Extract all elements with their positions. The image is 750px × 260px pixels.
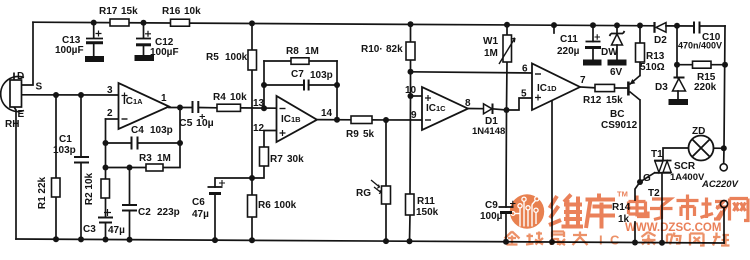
- wire IC1D output to R12: [580, 86, 595, 89]
- svg-text:R6: R6: [258, 200, 271, 211]
- wire feedback box right vertical to output: [336, 61, 338, 120]
- node top rail / IC V+ pin: [551, 22, 557, 28]
- wire sensor S lead to top rail: [22, 22, 34, 85]
- svg-text:C7: C7: [291, 69, 304, 80]
- svg-text:6V: 6V: [610, 67, 623, 78]
- svg-text:BC: BC: [610, 109, 624, 120]
- capacitor C5: [193, 101, 206, 119]
- svg-text:W1: W1: [483, 36, 498, 47]
- svg-text:C5: C5: [179, 117, 193, 129]
- 场: [701, 198, 727, 220]
- watermark text 维库 TM 电子市场网 www.dzsc.com 全球最大IC采购网站: [505, 190, 749, 248]
- svg-text:103p: 103p: [310, 70, 333, 81]
- svg-text:R4: R4: [213, 92, 226, 103]
- svg-text:1A400V: 1A400V: [670, 172, 705, 183]
- wire IC1C pin10 stub: [411, 95, 423, 97]
- svg-text:D3: D3: [655, 82, 668, 93]
- wire RG branch: [385, 120, 387, 241]
- capacitor C4: [132, 137, 138, 150]
- svg-text:ZD: ZD: [692, 126, 705, 137]
- capacitor C3: [98, 209, 113, 223]
- svg-text:D: D: [17, 71, 24, 82]
- node sensor output / C1: [78, 92, 84, 98]
- svg-text:T2: T2: [648, 188, 660, 199]
- capacitor C10: [694, 22, 700, 34]
- svg-text:D2: D2: [654, 35, 667, 46]
- svg-text:R12: R12: [583, 95, 602, 106]
- node R3 / C2: [127, 165, 133, 171]
- svg-text:5k: 5k: [363, 129, 375, 140]
- capacitor C2: [122, 205, 137, 211]
- svg-text:C11: C11: [560, 34, 578, 45]
- wire C5 to R4 to IC1B pin13: [198, 107, 276, 110]
- resistor R17: [110, 19, 129, 26]
- wire C7 feedback line: [264, 84, 337, 86]
- diode D1 1N4148: [484, 104, 493, 115]
- svg-text:15k: 15k: [121, 6, 138, 17]
- resistor R8: [291, 58, 309, 65]
- junction dots bottom rail: [53, 236, 665, 246]
- capacitor C11: [584, 34, 602, 65]
- svg-text:CS9012: CS9012: [601, 120, 638, 131]
- wire bottom ground rail: [16, 239, 724, 243]
- resistor R4: [217, 104, 241, 111]
- svg-text:SCR: SCR: [674, 161, 696, 172]
- capacitor C13: [86, 22, 104, 61]
- wire R15 line: [677, 64, 725, 66]
- humidity sensor D stub: [13, 73, 15, 81]
- wire lamp to triac T1: [663, 148, 689, 161]
- wire R1 branch: [55, 95, 57, 239]
- zener diode DW: [608, 31, 626, 65]
- node gate / R14: [637, 179, 643, 185]
- wire C1 branch: [80, 95, 82, 239]
- wire IC power stub top: [553, 25, 555, 33]
- node top rail / D2 output: [674, 23, 680, 29]
- svg-text:82k: 82k: [386, 44, 403, 55]
- node ground / RG: [383, 238, 389, 244]
- wire gate node to R14 and ground: [635, 182, 640, 243]
- svg-text:RH: RH: [5, 119, 19, 130]
- node ground / IC gnd pin: [549, 239, 555, 245]
- node ground / C1: [78, 236, 84, 242]
- wire IC1C output to D1: [468, 108, 483, 110]
- svg-text:7: 7: [580, 75, 586, 86]
- svg-text:IC1B: IC1B: [281, 114, 301, 125]
- svg-text:R13: R13: [646, 51, 665, 62]
- svg-text:8: 8: [465, 98, 471, 109]
- svg-text:100k: 100k: [274, 200, 297, 211]
- svg-text:I: I: [599, 233, 603, 248]
- svg-text:100µF: 100µF: [55, 45, 84, 56]
- svg-text:5: 5: [521, 89, 527, 100]
- wire R12 to transistor base: [615, 87, 628, 89]
- wire lamp right to vertical: [714, 147, 725, 149]
- node top rail / R5: [249, 20, 255, 26]
- svg-text:R3: R3: [139, 153, 152, 164]
- svg-text:RG: RG: [356, 188, 371, 199]
- op-amp IC1A: [119, 83, 170, 129]
- wire gate node to triac gate: [640, 173, 655, 182]
- watermark logo circle: [510, 194, 544, 228]
- 市: [677, 195, 699, 221]
- svg-text:R7: R7: [270, 154, 283, 165]
- wire AC lower terminal to ground rail: [723, 208, 725, 244]
- node ground / C3: [103, 237, 109, 243]
- svg-text:R17: R17: [99, 6, 118, 17]
- svg-text:1N4148: 1N4148: [472, 126, 505, 137]
- diode D3: [669, 78, 688, 105]
- svg-text:IC1A: IC1A: [123, 96, 143, 107]
- node top rail / R13: [637, 23, 643, 29]
- wire R11 branch to ground: [410, 96, 411, 241]
- svg-text:9: 9: [411, 110, 417, 121]
- svg-text:TM: TM: [617, 190, 628, 199]
- junction dots IC1B network: [249, 82, 340, 181]
- node pin2 / C4 left: [103, 140, 109, 146]
- node top rail / DW: [614, 22, 620, 28]
- photoresistor RG: [371, 180, 391, 204]
- wire pin6 threshold line: [411, 72, 533, 73]
- wire sensor E lead to ground rail: [14, 107, 16, 239]
- resistor R6: [248, 195, 257, 217]
- wire C2 branch: [129, 168, 131, 240]
- resistor R5: [248, 50, 257, 70]
- resistor R1: [52, 178, 61, 197]
- op-amp IC1D: [532, 64, 580, 111]
- svg-text:100µ: 100µ: [480, 211, 503, 222]
- node C7 right: [334, 82, 340, 88]
- wire C6 branch: [215, 178, 252, 240]
- resistor R7: [260, 147, 269, 166]
- svg-text:12: 12: [253, 123, 265, 134]
- svg-text:AC220V: AC220V: [701, 179, 739, 190]
- wire triac T2 to ground rail: [661, 173, 663, 243]
- resistor R13: [636, 43, 645, 62]
- svg-text:R16: R16: [162, 6, 181, 17]
- wire IC1A output to C5: [169, 107, 193, 109]
- wire R3 feedback line: [106, 143, 181, 168]
- node ground / C6: [212, 237, 218, 243]
- svg-text:220k: 220k: [694, 82, 717, 93]
- node top rail / C13: [91, 20, 97, 26]
- svg-text:1M: 1M: [157, 153, 171, 164]
- junction dots IC1C area: [383, 69, 510, 123]
- wire DW branch: [616, 25, 618, 60]
- wire C11 branch: [592, 25, 594, 60]
- resistor R3: [146, 164, 163, 171]
- svg-text:1M: 1M: [484, 48, 498, 59]
- op-amp IC1B: [277, 96, 318, 142]
- svg-text:13: 13: [253, 98, 265, 109]
- node top rail / C11: [590, 22, 596, 28]
- svg-text:2: 2: [107, 108, 113, 119]
- node top rail / C12: [141, 20, 147, 26]
- capacitor C9: [499, 201, 516, 213]
- op-amp IC1C: [422, 87, 468, 130]
- svg-text:R11: R11: [417, 196, 435, 207]
- resistor R2: [101, 179, 110, 198]
- wire IC ground pin line: [551, 101, 553, 243]
- svg-text:47µ: 47µ: [192, 209, 209, 220]
- node pin2 / R3 left: [103, 165, 109, 171]
- svg-text:R1 22k: R1 22k: [37, 176, 48, 209]
- wire D1 to node: [493, 109, 507, 110]
- 维: [549, 195, 583, 227]
- capacitor C6: [208, 180, 226, 194]
- bottom row 全球最大IC采购网站: [505, 232, 588, 246]
- svg-text:IC1C: IC1C: [426, 103, 446, 114]
- svg-text:100µF: 100µF: [150, 47, 179, 58]
- node D1-W1-C9-pin5: [504, 107, 510, 113]
- transistor BC CS9012: [628, 76, 640, 101]
- wire sensor output to IC1A pin3: [22, 94, 119, 96]
- node ground / R14: [632, 240, 638, 246]
- wire W1 branch from top rail crossing to D1 node: [506, 25, 509, 110]
- resistor R15: [693, 61, 712, 68]
- wire top rail right of C10: [700, 25, 726, 27]
- AC terminal upper: [720, 164, 727, 171]
- svg-text:C3: C3: [83, 224, 96, 235]
- svg-text:10k: 10k: [230, 92, 247, 103]
- wire pin2 node down through R2 C3 to ground: [105, 119, 107, 240]
- svg-text:10k: 10k: [184, 6, 201, 17]
- node top rail / R10: [408, 21, 414, 27]
- capacitor C12: [135, 23, 154, 61]
- node R10 / pin6 line: [408, 69, 414, 75]
- svg-text:10µ: 10µ: [196, 117, 214, 129]
- node IC1B pin13 / feedback: [261, 105, 267, 111]
- node C7 left: [261, 82, 267, 88]
- svg-text:103p: 103p: [53, 145, 76, 156]
- svg-text:C2: C2: [138, 207, 151, 218]
- svg-text:223p: 223p: [157, 207, 180, 218]
- lamp ZD: [689, 136, 714, 161]
- 网: [730, 199, 749, 221]
- svg-text:C9: C9: [485, 200, 498, 211]
- svg-text:R2 10k: R2 10k: [84, 172, 95, 205]
- svg-text:3: 3: [107, 85, 113, 96]
- wire IC1B feedback box left vertical: [263, 61, 265, 108]
- node R15 right: [722, 62, 728, 68]
- node lamp / AC drop: [721, 145, 727, 151]
- svg-text:R9: R9: [346, 129, 359, 140]
- wire R5 branch from top rail to bias node: [251, 23, 253, 178]
- wire R6 branch to ground: [251, 178, 253, 240]
- svg-text:150k: 150k: [416, 207, 439, 218]
- wire node to IC1D pin5: [507, 98, 533, 110]
- wire top +V rail left segment: [33, 22, 655, 26]
- svg-text:15k: 15k: [606, 95, 623, 106]
- node C4 right / output: [177, 140, 183, 146]
- svg-text:220µ: 220µ: [557, 46, 580, 57]
- svg-text:14: 14: [321, 108, 333, 119]
- wire right side drop from C10 to lamp and AC terminal: [724, 26, 725, 163]
- svg-text:103p: 103p: [150, 125, 173, 136]
- svg-text:IC1D: IC1D: [537, 83, 557, 94]
- wire D2/D3 junction vertical: [676, 26, 678, 78]
- wire R8 feedback line: [264, 60, 337, 62]
- resistor R11: [406, 194, 415, 215]
- wire R9 to IC1C pin9: [372, 119, 422, 121]
- humidity sensor RH envelope arc: [1, 77, 24, 112]
- svg-text:47µ: 47µ: [108, 225, 125, 236]
- node IC1B output / feedback: [334, 117, 340, 123]
- svg-text:T1: T1: [651, 149, 663, 160]
- node top rail / W1: [504, 22, 510, 28]
- node ground / C9: [503, 239, 509, 245]
- wire C9 branch to ground: [505, 110, 508, 242]
- node ground / T2: [659, 240, 665, 246]
- junction dots IC1A feedback: [103, 105, 184, 171]
- capacitor C7: [304, 80, 309, 91]
- AC terminal lower: [720, 200, 727, 207]
- resistor R16: [171, 19, 190, 26]
- wire transistor collector to gate node: [639, 100, 641, 182]
- svg-text:R8: R8: [286, 46, 299, 57]
- node pin9 / RG: [383, 117, 389, 123]
- wire R13 branch: [639, 26, 641, 76]
- wire C4 feedback line: [106, 142, 181, 144]
- svg-text:R10·: R10·: [361, 44, 383, 55]
- node R15 left / D3: [674, 62, 680, 68]
- svg-text:DW: DW: [601, 47, 618, 58]
- svg-text:S: S: [36, 82, 43, 93]
- svg-text:C6: C6: [192, 197, 205, 208]
- node ground / R11: [407, 238, 413, 244]
- capacitor C1: [74, 157, 89, 163]
- svg-text:510Ω: 510Ω: [640, 62, 665, 73]
- triac SCR T1/T2: [654, 161, 672, 173]
- node IC1A output / feedback: [177, 105, 183, 111]
- wire IC1B pin12 stub down through R7: [252, 131, 277, 179]
- node ground / R1: [53, 236, 59, 242]
- resistor R9: [351, 116, 372, 124]
- 子: [650, 199, 673, 220]
- svg-text:C4: C4: [131, 125, 144, 136]
- potentiometer W1: [499, 35, 515, 64]
- svg-text:1: 1: [161, 93, 167, 104]
- 库: [586, 194, 616, 229]
- wire IC1B output to R9: [317, 119, 351, 121]
- node R5-R6-R7-C6 bias: [249, 175, 255, 181]
- svg-text:R5: R5: [206, 52, 219, 63]
- 电: [629, 196, 649, 217]
- svg-text:30k: 30k: [287, 154, 304, 165]
- svg-text:100k: 100k: [225, 52, 248, 63]
- diode D2: [655, 22, 667, 33]
- svg-text:470n/400V: 470n/400V: [678, 41, 722, 51]
- node ground / R6: [249, 237, 255, 243]
- wire IC1A pin2 stub: [106, 118, 119, 120]
- svg-text:6: 6: [522, 64, 528, 75]
- junction dots input wire: [53, 92, 84, 98]
- resistor R10: [406, 42, 415, 60]
- wire D3 to its ground: [677, 78, 678, 100]
- wire feedback vertical to IC1A output: [179, 108, 181, 144]
- resistor R12: [595, 84, 615, 91]
- svg-text:10: 10: [405, 85, 417, 96]
- svg-text:WWW.DZSC.COM: WWW.DZSC.COM: [625, 222, 721, 234]
- node ground / C2: [127, 237, 133, 243]
- svg-text:C: C: [610, 233, 620, 248]
- humidity sensor RH body: [10, 80, 22, 107]
- svg-text:1M: 1M: [305, 46, 319, 57]
- svg-text:C1: C1: [59, 134, 72, 145]
- wire top rail between D2 and C10: [666, 25, 694, 27]
- svg-text:G: G: [643, 173, 651, 184]
- junction dots top rail: [91, 20, 680, 29]
- junction dots right section: [637, 62, 728, 185]
- node IC1C pin10 / R11: [408, 93, 414, 99]
- node sensor output / R1: [53, 92, 59, 98]
- wire R10 branch from top rail: [410, 24, 412, 96]
